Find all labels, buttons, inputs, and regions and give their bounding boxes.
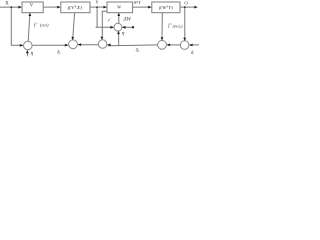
terminal dot right stub [132,26,134,28]
multiplier circle c1 (deltaV) [24,41,33,50]
arrowhead into c2 left [65,44,69,47]
wire delta-o up into multiplier bottom [118,31,120,45]
arrowhead into c2 right [78,43,82,46]
arrowhead into c1 left [20,44,24,47]
svg-text:ΔW: ΔW [122,17,131,22]
box f(WtY) (B4) [152,2,180,13]
arrowhead into box1 [18,6,22,9]
arrowhead into c5 right [189,44,193,47]
arrowhead down into c2 top [71,37,74,40]
wire stub right of multiplier [122,26,132,28]
box W (B3) [107,2,133,13]
eta stub under c1 [26,51,28,57]
wire X input [0,6,21,8]
circle c4 [158,40,167,49]
arrowhead up into c1 bottom (eta) [26,50,29,53]
arrowhead down into c5 top [183,38,186,41]
arrowhead down into c3 top [101,37,104,40]
wire box1 to box2 [43,6,58,8]
box V (B1) [22,2,43,13]
box f(VtX) (B2) [61,2,90,13]
arrowhead output O [194,6,198,9]
wire rail c4 to c5 [167,44,180,46]
wire box2 to box3 [90,6,106,8]
svg-text:f’: f’ [168,24,172,29]
multiplier circle deltaW [114,23,122,31]
arrowhead into box4 [148,6,152,9]
svg-text:X: X [5,2,9,7]
wire W tap from box3 down [102,11,107,39]
wire delta-y rail c1 to c2 [32,44,67,46]
wire Y branch overshoot stub [96,26,98,28]
wire deltaV up into box1 [28,13,30,41]
arrowhead into c3 right [107,44,111,47]
wire deltaW up into box3 [118,13,120,23]
svg-text:f’: f’ [34,23,38,28]
multiplier circle c3 [98,40,107,49]
wire rail c2 to c3 [78,44,98,46]
svg-text:(net): (net) [40,23,49,28]
svg-text:(neto): (neto) [173,23,183,29]
svg-text:f(WTY): f(WTY) [159,5,174,10]
svg-text:η: η [122,30,125,36]
multiplier circle c2 [69,40,78,49]
wire box3 to box4 [133,6,151,8]
arrowhead up into multiplier bottom [117,31,120,34]
wire output O [180,6,197,8]
arrowhead up into box1 (deltaV) [29,13,32,16]
svg-text:η: η [31,51,34,57]
arrowhead down into c4 top [161,37,164,40]
arrowhead into multiplier right [122,26,126,29]
wire d input [190,44,199,46]
svg-text:δy: δy [57,50,61,55]
arrowhead into c4 right [167,44,171,47]
wire f'(net_o) down from box4 [161,13,163,40]
svg-text:WTY: WTY [134,0,142,5]
circle c5 subtractor [180,41,189,50]
arrowhead into box2 [57,6,61,9]
wire f'(net) down from box2 [73,13,75,40]
wire Y branch down [97,7,113,27]
wire delta-o rail c3 to c4 [108,44,158,47]
wire X branch down left edge [11,7,22,45]
junction dot X branch [10,6,12,8]
svg-text:δo: δo [136,48,140,53]
arrowhead into box3 [103,6,107,9]
svg-text:d: d [191,50,194,56]
junction dot O branch [184,6,186,8]
arrowhead into multiplier left [110,26,114,29]
junction dot Y branch [96,6,98,8]
svg-text:y′: y′ [107,17,111,22]
wire O branch down [184,7,186,40]
arrowhead up into box3 (deltaW) [117,13,120,16]
